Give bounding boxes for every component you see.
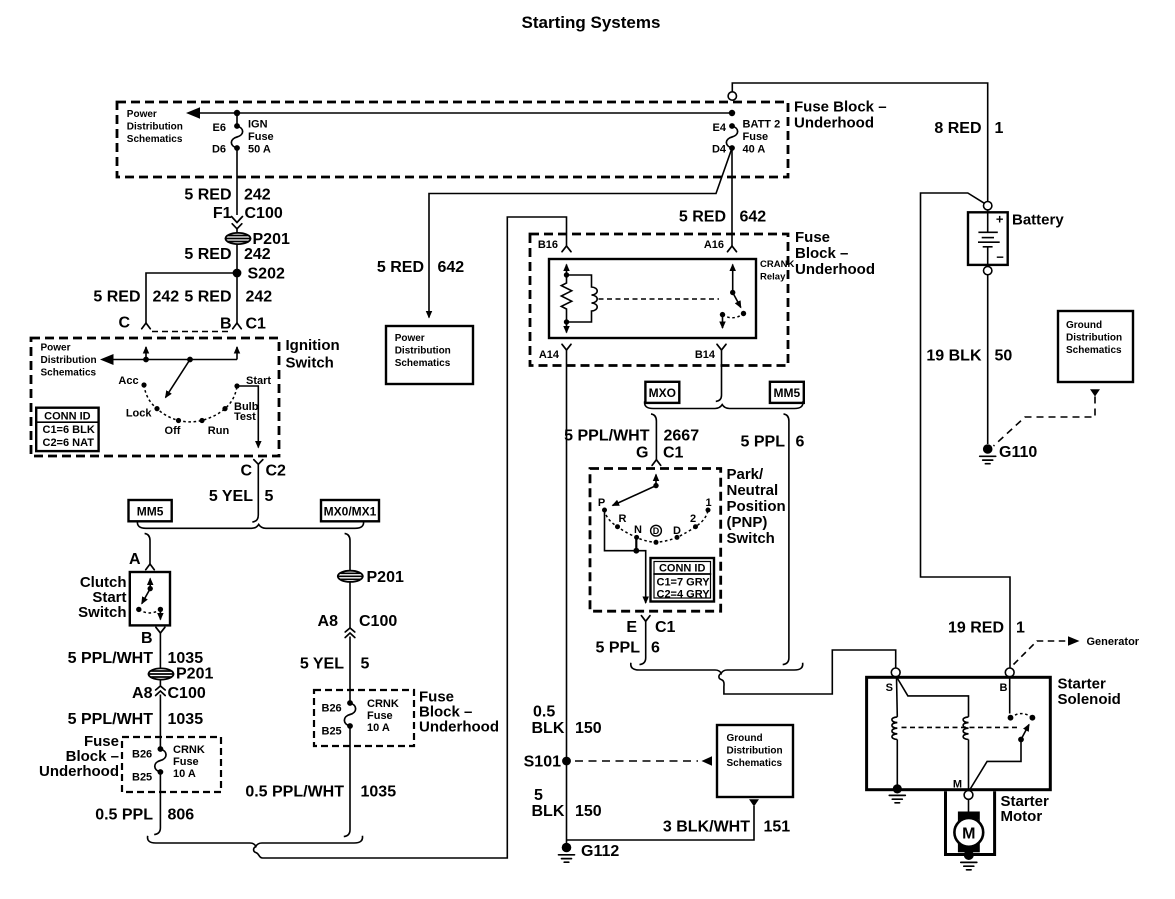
MM5 box (left option) xyxy=(129,500,172,521)
connector fork B16 into relay block xyxy=(562,246,571,252)
svg-text:1: 1 xyxy=(995,120,1004,137)
svg-text:C2: C2 xyxy=(266,463,287,480)
svg-text:Lock: Lock xyxy=(126,408,153,420)
svg-text:50: 50 xyxy=(995,348,1013,365)
motor armature xyxy=(954,812,983,851)
svg-text:Power: Power xyxy=(127,109,157,120)
svg-text:E6: E6 xyxy=(213,122,226,134)
battery top terminal xyxy=(984,202,992,210)
splice node S101 xyxy=(562,757,571,766)
node Start xyxy=(234,383,239,388)
connector fork C/C2 below ignition xyxy=(254,460,263,465)
svg-text:Distribution: Distribution xyxy=(395,346,451,357)
terminal circle above BATT2 fuse xyxy=(728,92,736,100)
connector fork A into clutch switch xyxy=(146,564,155,570)
clutch contact right xyxy=(158,607,163,612)
svg-text:MM5: MM5 xyxy=(773,386,800,400)
svg-text:C1=6 BLK: C1=6 BLK xyxy=(43,424,95,436)
pnp wiper arrow to P xyxy=(613,486,657,506)
svg-text:806: 806 xyxy=(168,807,195,824)
svg-text:642: 642 xyxy=(438,259,465,276)
svg-text:Off: Off xyxy=(165,425,181,437)
svg-text:P201: P201 xyxy=(367,569,404,586)
wire merge output to starter solenoid S xyxy=(719,650,896,694)
svg-text:8 RED: 8 RED xyxy=(934,120,981,137)
node D arc dot xyxy=(654,540,659,545)
svg-text:−: − xyxy=(996,250,1004,265)
svg-text:Underhood: Underhood xyxy=(795,261,875,278)
svg-text:C100: C100 xyxy=(359,613,397,630)
wire branch hook down (MM5 direct) xyxy=(783,414,789,665)
clutch output arrow down xyxy=(159,609,161,619)
connector A8/C100 inline (clutch branch) xyxy=(156,686,166,690)
clutch contact left xyxy=(136,607,141,612)
svg-text:B26: B26 xyxy=(322,703,342,715)
svg-text:S101: S101 xyxy=(524,754,561,771)
wire blade to M terminal xyxy=(969,740,1021,791)
wire hold-in winding to ground xyxy=(896,740,898,789)
clutch start switch box xyxy=(130,572,170,625)
svg-text:5 PPL: 5 PPL xyxy=(596,640,641,657)
svg-text:Fuse: Fuse xyxy=(367,710,393,722)
svg-text:5 RED: 5 RED xyxy=(679,209,726,226)
node 2 xyxy=(693,524,698,529)
wire 3 BLK/WHT 151 xyxy=(567,806,755,840)
svg-text:IGN: IGN xyxy=(248,119,268,131)
svg-text:CONN ID: CONN ID xyxy=(44,411,91,423)
wire S to hold-in winding xyxy=(896,677,899,717)
svg-text:A14: A14 xyxy=(539,349,560,361)
svg-text:C100: C100 xyxy=(245,205,283,222)
terminal M xyxy=(964,791,973,800)
svg-text:6: 6 xyxy=(796,434,805,451)
wire to CRNK fuse (clutch branch) xyxy=(159,695,161,750)
svg-text:1035: 1035 xyxy=(361,784,397,801)
conn id table (PNP) xyxy=(651,558,715,602)
node Off xyxy=(176,418,181,423)
svg-text:Fuse: Fuse xyxy=(173,756,199,768)
conn id table (ignition) xyxy=(36,408,98,451)
svg-text:P201: P201 xyxy=(176,666,213,683)
MX0/MX1 box (right option) xyxy=(321,500,379,521)
wire 0.5 PPL/WHT 1035 with end hook xyxy=(344,726,350,837)
terminal B xyxy=(1005,668,1014,677)
svg-text:242: 242 xyxy=(246,289,273,306)
fuse IGN 50A xyxy=(236,113,238,124)
svg-text:CRNK: CRNK xyxy=(367,698,399,710)
svg-text:M: M xyxy=(953,779,962,791)
svg-text:6: 6 xyxy=(651,640,660,657)
svg-text:0.5 PPL: 0.5 PPL xyxy=(95,807,153,824)
svg-text:(PNP): (PNP) xyxy=(727,514,768,531)
ground G112 xyxy=(559,843,575,863)
wire ignition feed bus (arrow left) xyxy=(113,359,237,361)
relay coil input arrow up xyxy=(566,265,568,276)
svg-text:G110: G110 xyxy=(999,444,1037,461)
wire battery branch to starter (19 RED) xyxy=(921,193,1011,668)
wire B14 down with end hook xyxy=(716,350,722,401)
starter solenoid box xyxy=(867,677,1051,789)
connector fork B14 below relay xyxy=(717,344,726,350)
node on feed bus at C riser xyxy=(143,357,149,363)
starter motor housing xyxy=(946,791,995,854)
svg-text:Schematics: Schematics xyxy=(395,358,451,369)
svg-text:C100: C100 xyxy=(168,685,206,702)
svg-text:10 A: 10 A xyxy=(367,722,390,734)
wire bus to power distribution (arrow left) xyxy=(199,112,732,114)
connector A8/C100 inline (MX0/MX1 branch) xyxy=(345,628,355,632)
svg-text:Ground: Ground xyxy=(727,733,763,744)
fuse CRNK 10A (MX0/MX1 branch) xyxy=(347,700,353,706)
svg-text:5: 5 xyxy=(534,787,543,804)
relay coil (parallel) xyxy=(567,275,598,322)
ground G110 xyxy=(980,444,996,464)
svg-text:C1: C1 xyxy=(663,445,684,462)
svg-text:1: 1 xyxy=(1016,620,1025,637)
harness merge bracket (PNP + MM5) xyxy=(631,663,803,674)
circled D indicator xyxy=(651,525,662,536)
fuse block underhood (top) dashed box xyxy=(117,102,788,177)
wire S202 split left branch xyxy=(146,273,237,323)
solenoid contact (open side) xyxy=(1030,715,1036,721)
rotary wiper arrow to Lock xyxy=(166,360,191,398)
svg-text:D: D xyxy=(653,526,660,536)
relay coil output arrow down xyxy=(566,322,568,333)
svg-text:Acc: Acc xyxy=(118,375,138,387)
svg-text:CRANK: CRANK xyxy=(760,259,794,270)
fuse block underhood dashed box (MX0/MX1 branch CRNK fuse) xyxy=(314,690,414,746)
svg-text:Switch: Switch xyxy=(727,530,775,547)
svg-text:B: B xyxy=(220,316,232,333)
svg-text:5 PPL: 5 PPL xyxy=(741,434,786,451)
wire to P201 and S202 xyxy=(236,229,238,323)
connector fork A14 below relay xyxy=(562,344,571,350)
splice P201 (MX0/MX1 branch) xyxy=(338,571,363,582)
solenoid actuation dashed link xyxy=(902,726,1021,728)
MXO box xyxy=(645,382,679,403)
svg-text:Distribution: Distribution xyxy=(127,122,183,133)
node junction at BATT2 fuse top xyxy=(729,110,735,116)
wire riser to pin B (arrow up) xyxy=(236,347,238,360)
svg-text:BATT 2: BATT 2 xyxy=(743,119,781,131)
crank relay box xyxy=(549,259,756,338)
connector fork B below clutch switch xyxy=(156,627,165,633)
svg-text:B: B xyxy=(1000,682,1008,694)
svg-text:Schematics: Schematics xyxy=(727,758,783,769)
svg-text:5 RED: 5 RED xyxy=(93,289,140,306)
svg-text:19 BLK: 19 BLK xyxy=(926,348,982,365)
svg-text:Solenoid: Solenoid xyxy=(1058,691,1121,708)
svg-text:Position: Position xyxy=(727,498,786,515)
fuse block underhood dashed box (clutch branch CRNK fuse) xyxy=(122,737,221,792)
svg-text:40 A: 40 A xyxy=(743,144,766,156)
svg-text:Block –: Block – xyxy=(795,245,848,262)
svg-text:3 BLK/WHT: 3 BLK/WHT xyxy=(663,819,750,836)
ground (starter motor) xyxy=(961,850,977,870)
svg-text:BLK: BLK xyxy=(532,720,565,737)
wire 19 BLK 50 battery to G110 xyxy=(987,275,989,444)
svg-text:Run: Run xyxy=(208,425,230,437)
battery box xyxy=(968,212,1008,265)
svg-text:Motor: Motor xyxy=(1001,808,1043,825)
svg-text:Starting Systems: Starting Systems xyxy=(522,13,661,32)
svg-text:19 RED: 19 RED xyxy=(948,620,1004,637)
wire B to contact xyxy=(1009,677,1011,714)
svg-text:B26: B26 xyxy=(132,749,152,761)
dashed reference to generator (arrow right) xyxy=(1014,641,1067,665)
svg-text:242: 242 xyxy=(153,289,180,306)
splice P201 (clutch branch) xyxy=(149,668,174,679)
wire S to pull-in winding xyxy=(898,679,969,717)
solenoid contact dashed travel arc xyxy=(1011,714,1033,718)
svg-text:Underhood: Underhood xyxy=(794,115,874,132)
MM5 box (right) xyxy=(770,382,804,403)
svg-text:A: A xyxy=(129,551,141,568)
wire branch hook to A (MM5) xyxy=(145,533,150,564)
node Acc xyxy=(141,382,146,387)
clutch switch pole arrow up xyxy=(149,579,151,589)
svg-text:G: G xyxy=(636,445,648,462)
connector C1 dashed bar xyxy=(152,331,231,333)
svg-text:S: S xyxy=(886,682,893,694)
wire 0.5 PPL 806 with end hook xyxy=(154,772,160,835)
relay contact dashed travel arc xyxy=(723,314,744,318)
svg-text:CONN ID: CONN ID xyxy=(659,563,706,575)
svg-text:642: 642 xyxy=(740,209,767,226)
solenoid blade arrow xyxy=(1021,725,1029,740)
svg-text:E4: E4 xyxy=(713,122,727,134)
solenoid contact (B side) xyxy=(1008,715,1014,721)
svg-text:D4: D4 xyxy=(712,144,727,156)
svg-text:C1=7 GRY: C1=7 GRY xyxy=(657,577,711,589)
svg-text:Distribution: Distribution xyxy=(1066,333,1122,344)
svg-text:A8: A8 xyxy=(318,613,339,630)
svg-text:C1: C1 xyxy=(246,316,267,333)
relay closed contact (B14) xyxy=(720,312,725,317)
svg-text:P: P xyxy=(598,497,605,509)
svg-text:1: 1 xyxy=(705,497,711,509)
wire 8 RED from terminal to battery xyxy=(732,83,987,202)
svg-text:2: 2 xyxy=(690,513,696,525)
svg-text:B16: B16 xyxy=(538,239,558,251)
splice P201 (top) xyxy=(226,233,251,244)
node 1 xyxy=(706,508,711,513)
svg-text:5 RED: 5 RED xyxy=(184,187,231,204)
fuse CRNK 10A (clutch branch) xyxy=(158,746,164,752)
fuse block underhood dashed box (crank relay) xyxy=(530,234,788,366)
svg-text:C2=6 NAT: C2=6 NAT xyxy=(43,437,95,449)
svg-text:5: 5 xyxy=(361,656,370,673)
svg-text:50 A: 50 A xyxy=(248,144,271,156)
svg-text:E: E xyxy=(626,619,637,636)
svg-text:Switch: Switch xyxy=(78,604,126,621)
relay open contact xyxy=(741,311,746,316)
svg-text:5: 5 xyxy=(265,488,274,505)
reference triangle below box xyxy=(1090,389,1100,396)
svg-text:5 RED: 5 RED xyxy=(377,259,424,276)
harness split bracket below B14 xyxy=(645,401,803,408)
node rotary pivot xyxy=(187,357,193,363)
node junction at IGN fuse top xyxy=(234,110,240,116)
svg-text:Schematics: Schematics xyxy=(41,368,97,379)
svg-text:A8: A8 xyxy=(132,685,153,702)
ground distribution schematics box (center) xyxy=(717,725,793,797)
pnp entry arrow up xyxy=(655,475,657,486)
svg-text:B25: B25 xyxy=(132,772,152,784)
node junction under N xyxy=(633,548,639,554)
svg-text:242: 242 xyxy=(244,246,271,263)
node R xyxy=(615,524,620,529)
node Bulb Test xyxy=(222,406,227,411)
svg-text:Test: Test xyxy=(234,411,256,423)
connector fork E below PNP xyxy=(641,616,650,622)
svg-text:150: 150 xyxy=(575,803,602,820)
svg-text:+: + xyxy=(996,212,1004,227)
wire merge output to crank relay B16 xyxy=(254,217,567,858)
svg-text:1035: 1035 xyxy=(168,650,204,667)
dashed reference to ground distribution (arrow) xyxy=(575,760,698,762)
wire P contact to output xyxy=(605,510,646,603)
wire branch hook to G C1 (MXO) xyxy=(651,414,656,460)
harness split bracket below 5 YEL xyxy=(137,521,363,528)
svg-text:10 A: 10 A xyxy=(173,768,196,780)
relay common arrow up (A16 side) xyxy=(732,265,734,293)
svg-text:Generator: Generator xyxy=(1087,636,1140,648)
svg-text:Fuse: Fuse xyxy=(248,131,274,143)
svg-text:S202: S202 xyxy=(248,266,285,283)
svg-text:C: C xyxy=(240,463,252,480)
splice node S202 xyxy=(233,269,242,278)
svg-text:Distribution: Distribution xyxy=(727,746,783,757)
svg-text:D: D xyxy=(673,525,681,537)
svg-text:R: R xyxy=(619,513,627,525)
svg-text:Fuse: Fuse xyxy=(743,131,769,143)
svg-text:Underhood: Underhood xyxy=(39,763,119,780)
wire pull-in winding to M xyxy=(968,740,970,792)
svg-text:Schematics: Schematics xyxy=(127,134,183,145)
connector fork B into ignition switch xyxy=(233,323,242,329)
clutch switch blade arrow xyxy=(142,589,150,604)
svg-text:M: M xyxy=(962,825,975,842)
wire riser to pin C (arrow up) xyxy=(145,347,147,360)
wire 5 PPL 6 from E with end hook xyxy=(640,621,646,664)
pull-in winding coil xyxy=(963,717,968,740)
svg-text:Starter: Starter xyxy=(1058,676,1107,693)
svg-text:Distribution: Distribution xyxy=(41,355,97,366)
svg-text:Fuse: Fuse xyxy=(795,229,830,246)
svg-text:242: 242 xyxy=(244,187,271,204)
rotary dashed arc xyxy=(144,385,237,422)
terminal S xyxy=(891,668,900,677)
battery plates xyxy=(987,210,989,232)
svg-text:5 PPL/WHT: 5 PPL/WHT xyxy=(68,711,154,728)
svg-text:D6: D6 xyxy=(212,144,226,156)
wire 5 YEL 5 to CRNK fuse xyxy=(349,637,351,704)
svg-text:150: 150 xyxy=(575,720,602,737)
svg-text:5 PPL/WHT: 5 PPL/WHT xyxy=(564,428,650,445)
node Lock xyxy=(154,406,159,411)
svg-text:Ignition: Ignition xyxy=(286,337,340,354)
wire 5 YEL 5 with end hook xyxy=(252,464,258,522)
svg-text:C1: C1 xyxy=(655,619,676,636)
connector fork G into PNP switch xyxy=(652,460,661,466)
svg-text:Underhood: Underhood xyxy=(419,719,499,736)
harness merge bracket (clutch + MX0/MX1 branches) xyxy=(148,836,363,847)
svg-text:1035: 1035 xyxy=(168,711,204,728)
wire branch hook to P201 (MX0/MX1) xyxy=(345,533,350,628)
svg-text:151: 151 xyxy=(764,819,791,836)
dashed reference to G110 xyxy=(994,397,1096,447)
svg-text:0.5 PPL/WHT: 0.5 PPL/WHT xyxy=(245,784,344,801)
svg-text:Switch: Switch xyxy=(286,355,334,372)
svg-text:MX0/MX1: MX0/MX1 xyxy=(324,505,377,519)
svg-text:Power: Power xyxy=(395,333,425,344)
svg-text:MM5: MM5 xyxy=(137,505,164,519)
svg-text:5 YEL: 5 YEL xyxy=(300,656,344,673)
power distribution schematics box xyxy=(386,326,473,384)
ignition switch dashed box xyxy=(31,338,279,456)
relay output arrow down to B14 xyxy=(722,315,724,328)
wire 5 RED 242 below IGN fuse xyxy=(236,148,238,215)
svg-text:F1: F1 xyxy=(213,205,232,222)
svg-text:5 PPL/WHT: 5 PPL/WHT xyxy=(68,650,154,667)
battery bottom terminal xyxy=(984,266,992,274)
wire A14 ground run xyxy=(566,350,568,847)
svg-text:2667: 2667 xyxy=(664,428,700,445)
svg-text:B14: B14 xyxy=(695,349,716,361)
relay blade arrow xyxy=(733,293,741,308)
clutch contact dashed travel arc xyxy=(139,609,161,613)
svg-text:5 YEL: 5 YEL xyxy=(209,488,253,505)
svg-text:C2=4 GRY: C2=4 GRY xyxy=(657,589,711,601)
svg-text:Battery: Battery xyxy=(1012,212,1064,229)
hold-in winding coil xyxy=(892,717,897,740)
svg-text:Ground: Ground xyxy=(1066,320,1102,331)
connector fork C into ignition switch xyxy=(142,323,151,329)
svg-text:BLK: BLK xyxy=(532,803,565,820)
N contact stub xyxy=(635,537,637,550)
svg-text:Relay: Relay xyxy=(760,272,786,283)
svg-text:Fuse Block –: Fuse Block – xyxy=(794,99,887,116)
wire 5 RED 642 to power distribution (arrow down) xyxy=(429,148,732,318)
pnp dashed arc xyxy=(605,510,709,542)
ground node on solenoid case xyxy=(893,784,902,793)
svg-text:N: N xyxy=(634,524,642,536)
relay actuation dashed link xyxy=(599,298,720,300)
reference triangle below box xyxy=(749,799,759,806)
node D xyxy=(675,535,680,540)
svg-text:0.5: 0.5 xyxy=(533,704,555,721)
svg-text:Power: Power xyxy=(41,343,71,354)
node P xyxy=(602,508,607,513)
connector fork A16 into relay xyxy=(728,246,737,252)
svg-text:Park/: Park/ xyxy=(727,466,765,483)
node N xyxy=(634,535,639,540)
svg-text:MXO: MXO xyxy=(649,386,676,400)
ground distribution schematics box (right) xyxy=(1058,311,1133,382)
connector F1/C100 inline xyxy=(232,217,243,223)
relay resistor xyxy=(561,275,571,322)
svg-text:B25: B25 xyxy=(322,726,342,738)
wire M to motor xyxy=(968,799,970,813)
svg-text:A16: A16 xyxy=(704,239,724,251)
ground (solenoid) xyxy=(889,795,905,802)
svg-text:G112: G112 xyxy=(581,843,619,860)
svg-text:C: C xyxy=(118,315,130,332)
wire 5 PPL/WHT 1035 from B xyxy=(159,633,161,686)
fuse BATT 2 40A xyxy=(729,123,735,129)
wire Start output (arrow down, exits box) xyxy=(237,386,258,448)
